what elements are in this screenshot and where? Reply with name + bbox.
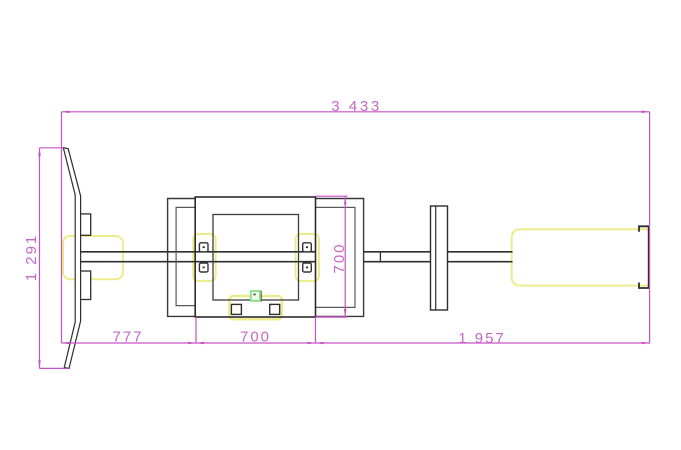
blade disc bbox=[63, 148, 80, 369]
highlight yellow box gearbox right bbox=[296, 234, 320, 281]
highlight yellow box gearbox left bbox=[193, 234, 215, 281]
extension line left vertical bbox=[61, 112, 63, 343]
highlight yellow box gearbox bottom bbox=[229, 296, 282, 319]
sensor black square bbox=[252, 291, 261, 301]
shaft mid segment top line bbox=[364, 251, 431, 253]
dim 700v bottom extension bbox=[316, 316, 348, 318]
svg-text:700: 700 bbox=[240, 328, 271, 345]
dim bottom line bbox=[62, 342, 650, 344]
foot square left bbox=[231, 304, 241, 314]
dim 700v line bbox=[344, 196, 346, 317]
highlight yellow box right cylinder bbox=[512, 229, 650, 285]
shaft left segment top line bbox=[80, 251, 315, 253]
right end clip bracket bbox=[639, 226, 649, 288]
dim 700v top extension bbox=[316, 195, 348, 197]
dim 1291 top arrow bbox=[38, 148, 41, 156]
shaft right segment top line bbox=[448, 251, 513, 253]
dim bottom tick at gearbox left bbox=[195, 317, 197, 343]
gearbox inner box bbox=[213, 215, 299, 301]
highlight yellow box left bearing bbox=[63, 236, 123, 279]
bolt lower-left bbox=[199, 263, 208, 272]
dim 700v bottom arrow bbox=[344, 309, 347, 317]
hub upper rect bbox=[80, 214, 91, 235]
extension line right vertical bbox=[649, 112, 651, 344]
disc wheel inner line bbox=[435, 206, 437, 310]
gearbox right bracket inner bbox=[316, 207, 356, 307]
svg-text:777: 777 bbox=[112, 328, 143, 345]
bolt upper-left bbox=[199, 243, 208, 252]
shaft mid segment bottom line bbox=[364, 261, 431, 263]
dim 3433 right arrow bbox=[642, 111, 650, 114]
dim 700v top arrow bbox=[344, 196, 347, 204]
svg-text:3 433: 3 433 bbox=[331, 98, 382, 115]
dim 3433 line bbox=[62, 111, 650, 113]
disc wheel bbox=[431, 206, 448, 310]
gearbox left bracket inner bbox=[176, 207, 195, 305]
sensor green square bbox=[251, 291, 260, 301]
dim 1957 arrows bbox=[316, 342, 324, 345]
svg-text:1 957: 1 957 bbox=[458, 330, 506, 347]
foot square right bbox=[270, 304, 280, 314]
dim 1291 bottom extension bbox=[40, 367, 69, 369]
gearbox right bracket outer bbox=[316, 199, 364, 317]
dim 1291 line bbox=[39, 148, 41, 369]
gearbox left bracket outer bbox=[168, 199, 196, 317]
dim 1291 top extension bbox=[40, 147, 64, 149]
sensor dot bbox=[253, 294, 255, 296]
dim 3433 left arrow bbox=[62, 111, 70, 114]
shaft right segment bottom line bbox=[448, 261, 513, 263]
shaft coupling joint line bbox=[379, 252, 381, 262]
dim 1291 bottom arrow bbox=[38, 360, 41, 368]
gearbox outer box bbox=[195, 197, 315, 317]
bolt lower-right bbox=[303, 263, 312, 272]
dim 700h arrows bbox=[196, 342, 204, 345]
shaft left segment bottom line bbox=[80, 261, 315, 263]
bolt upper-right bbox=[303, 243, 312, 252]
dim 777 arrows bbox=[62, 342, 70, 345]
svg-text:1 291: 1 291 bbox=[23, 234, 40, 282]
svg-text:700: 700 bbox=[331, 242, 348, 273]
dim bottom tick at gearbox right bbox=[315, 317, 317, 343]
hub lower rect bbox=[80, 271, 91, 300]
